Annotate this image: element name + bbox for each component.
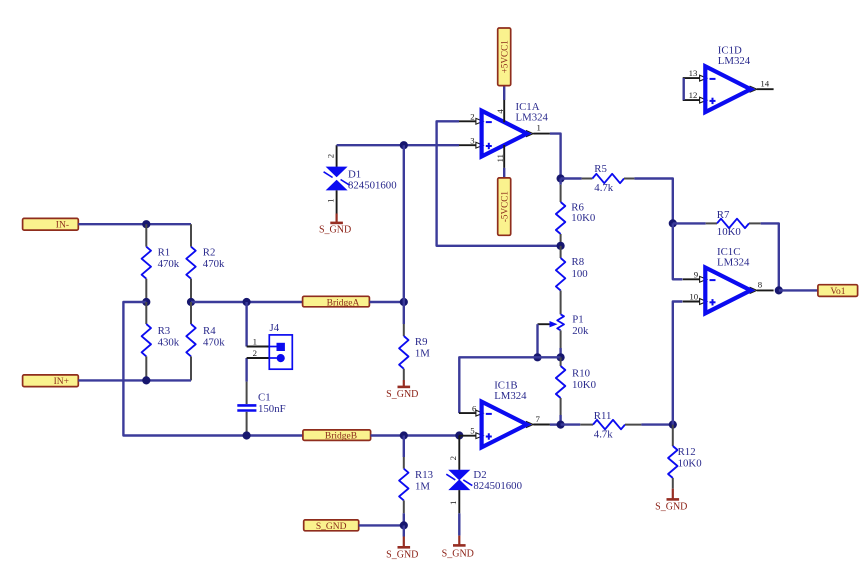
svg-text:430k: 430k (158, 336, 180, 348)
svg-text:1M: 1M (415, 480, 430, 492)
svg-text:150nF: 150nF (258, 403, 286, 415)
ground S_GND below R13 (386, 525, 418, 560)
svg-text:R11: R11 (594, 410, 612, 422)
wire S_GND label to R13 (359, 524, 404, 526)
ground S_GND below R12 (655, 489, 687, 513)
svg-text:R5: R5 (594, 163, 607, 175)
wire to Vo1 (779, 289, 818, 291)
supply -5VCC1 (498, 178, 511, 235)
junction node R2/R4 (187, 298, 195, 306)
junction IN-/R1 (142, 220, 150, 228)
svg-text:R13: R13 (415, 469, 433, 481)
wire D1 to IC1A pin 3 (337, 144, 459, 146)
junction out1/R5/R6 (557, 174, 565, 182)
junction D1/BridgeA rail (400, 141, 408, 149)
svg-text:10K0: 10K0 (571, 212, 595, 224)
resistor R9 1M (399, 302, 430, 380)
svg-text:100: 100 (572, 268, 588, 280)
connector J4 (247, 322, 293, 369)
svg-text:10K0: 10K0 (717, 226, 741, 238)
svg-text:D1: D1 (348, 168, 361, 180)
svg-text:IN-: IN- (56, 221, 69, 231)
wire BridgeB net right (371, 434, 460, 436)
junction P1 bottom (557, 353, 565, 361)
port label IN+ (23, 375, 79, 387)
wire IC1A pin2 feedback (437, 121, 561, 246)
svg-text:1: 1 (537, 123, 541, 133)
svg-text:R2: R2 (203, 247, 216, 259)
svg-text:14: 14 (760, 79, 769, 89)
svg-text:2: 2 (253, 348, 257, 358)
svg-text:7: 7 (536, 414, 541, 424)
svg-text:IN+: IN+ (54, 377, 69, 387)
port label BridgeA (303, 296, 370, 308)
svg-text:6: 6 (472, 403, 477, 413)
wire R5 to R7 node (634, 179, 672, 224)
svg-text:+5VCC1: +5VCC1 (500, 40, 510, 74)
wire IC1C pin10 net (673, 302, 683, 425)
wire IC1D inputs tie (683, 78, 685, 100)
ground S_GND below R9 (386, 380, 418, 400)
svg-text:2: 2 (448, 456, 458, 460)
svg-text:LM324: LM324 (718, 55, 751, 67)
svg-text:10: 10 (689, 292, 698, 302)
svg-text:LM324: LM324 (516, 112, 549, 124)
svg-text:1: 1 (326, 198, 336, 202)
svg-text:BridgeA: BridgeA (327, 298, 360, 308)
svg-text:9: 9 (694, 269, 699, 279)
svg-text:5: 5 (470, 426, 475, 436)
svg-text:12: 12 (689, 90, 698, 100)
resistor R11 4.7k (561, 410, 673, 441)
svg-text:R9: R9 (415, 336, 428, 348)
junction R13 top (400, 431, 408, 439)
svg-text:20k: 20k (572, 325, 589, 337)
junction output Vo1 node (775, 286, 783, 294)
op-amp IC1A LM324 (459, 101, 550, 156)
svg-text:LM324: LM324 (717, 256, 750, 268)
junction node BridgeA (400, 298, 408, 306)
svg-text:BridgeB: BridgeB (325, 432, 357, 442)
svg-text:-5VCC1: -5VCC1 (500, 191, 510, 223)
supply +5VCC1 (498, 28, 511, 100)
svg-text:10K0: 10K0 (572, 379, 596, 391)
svg-text:R7: R7 (717, 209, 730, 221)
junction out7/R10 (557, 421, 565, 429)
diode D1 824501600 (324, 145, 397, 213)
resistor R13 1M (399, 436, 433, 526)
svg-text:R1: R1 (158, 247, 171, 259)
wire J4 pin 1 to BridgeA (245, 302, 247, 347)
svg-text:11: 11 (495, 154, 505, 162)
svg-text:10K0: 10K0 (678, 457, 702, 469)
svg-text:J4: J4 (270, 322, 280, 334)
junction D2 top (455, 431, 463, 439)
junction R7/pin9 node (669, 219, 677, 227)
diode D2 824501600 (446, 436, 522, 536)
resistor R5 4.7k (561, 163, 635, 194)
port label Vo1 (818, 285, 858, 298)
svg-text:2: 2 (470, 111, 474, 121)
junction R13 bottom (400, 521, 408, 529)
svg-text:S_GND: S_GND (386, 549, 418, 560)
resistor R3 430k (142, 302, 180, 380)
svg-text:R4: R4 (203, 325, 216, 337)
wire BridgeA net right (369, 301, 403, 303)
svg-text:470k: 470k (203, 258, 225, 270)
port label S_GND (304, 520, 359, 532)
junction C1/BridgeB (243, 431, 251, 439)
capacitor C1 150nF (237, 382, 285, 436)
resistor R7 10K0 (673, 209, 761, 238)
power pin 11 (495, 145, 505, 178)
junction wiper node (533, 353, 541, 361)
svg-text:P1: P1 (572, 314, 583, 326)
svg-text:Vo1: Vo1 (830, 287, 845, 297)
svg-text:4.7k: 4.7k (594, 182, 613, 194)
svg-text:LM324: LM324 (494, 390, 527, 402)
svg-text:4: 4 (495, 109, 505, 114)
junction IN+/R3 (142, 376, 150, 384)
svg-text:470k: 470k (158, 258, 180, 270)
svg-text:824501600: 824501600 (473, 480, 522, 492)
ground S_GND below D1 (319, 214, 351, 236)
op-amp IC1C LM324 (683, 246, 774, 313)
svg-text:C1: C1 (258, 391, 271, 403)
junction feedback node (557, 242, 565, 250)
op-amp IC1D LM324 (683, 45, 774, 113)
wire IC1A output (550, 134, 561, 179)
resistor R2 470k (186, 224, 225, 302)
resistor R8 100 (556, 246, 588, 314)
junction R11/R12/pin10 (669, 421, 677, 429)
junction node R1/R3 (142, 298, 150, 306)
svg-text:R3: R3 (158, 325, 171, 337)
svg-text:1: 1 (448, 501, 458, 505)
ground S_GND below D2 (442, 536, 474, 560)
junction J4 branch (243, 298, 251, 306)
wire J4 pin 2 down to C1 (245, 358, 247, 382)
svg-text:S_GND: S_GND (386, 389, 418, 400)
svg-text:13: 13 (689, 68, 698, 78)
svg-text:S_GND: S_GND (442, 549, 474, 560)
wire BridgeA rail vertical (403, 145, 405, 302)
potentiometer P1 20k (538, 314, 589, 358)
svg-text:1M: 1M (415, 347, 430, 359)
resistor R6 10K0 (556, 179, 595, 246)
resistor R1 470k (142, 224, 180, 302)
wire BridgeA net left (191, 301, 303, 303)
svg-text:R10: R10 (572, 367, 590, 379)
svg-text:8: 8 (758, 280, 763, 290)
op-amp IC1B LM324 (459, 380, 550, 448)
wire BridgeB left riser (123, 302, 303, 436)
resistor R4 470k (186, 302, 225, 380)
svg-text:3: 3 (470, 135, 475, 145)
svg-text:S_GND: S_GND (316, 522, 347, 532)
svg-text:470k: 470k (203, 336, 225, 348)
svg-text:1: 1 (253, 337, 257, 347)
svg-text:R8: R8 (572, 256, 585, 268)
wire R7 to output node (761, 223, 779, 290)
svg-text:824501600: 824501600 (348, 180, 397, 192)
power pin 4 (495, 99, 505, 122)
port label IN- (23, 218, 79, 230)
wire IN- net (78, 223, 191, 225)
svg-text:2: 2 (326, 154, 336, 158)
resistor R10 10K0 (556, 357, 596, 424)
svg-text:4.7k: 4.7k (594, 429, 613, 441)
wire IC1B pin6 net (459, 357, 560, 413)
wire IC1C pin9 net (673, 223, 683, 279)
wire IN+ net (78, 379, 191, 381)
svg-text:S_GND: S_GND (655, 501, 687, 512)
svg-text:R12: R12 (678, 446, 696, 458)
svg-text:S_GND: S_GND (319, 224, 351, 235)
port label BridgeB (303, 430, 371, 442)
wire IC1B output (550, 423, 561, 425)
svg-text:D2: D2 (473, 469, 486, 481)
resistor R12 10K0 (668, 425, 702, 489)
